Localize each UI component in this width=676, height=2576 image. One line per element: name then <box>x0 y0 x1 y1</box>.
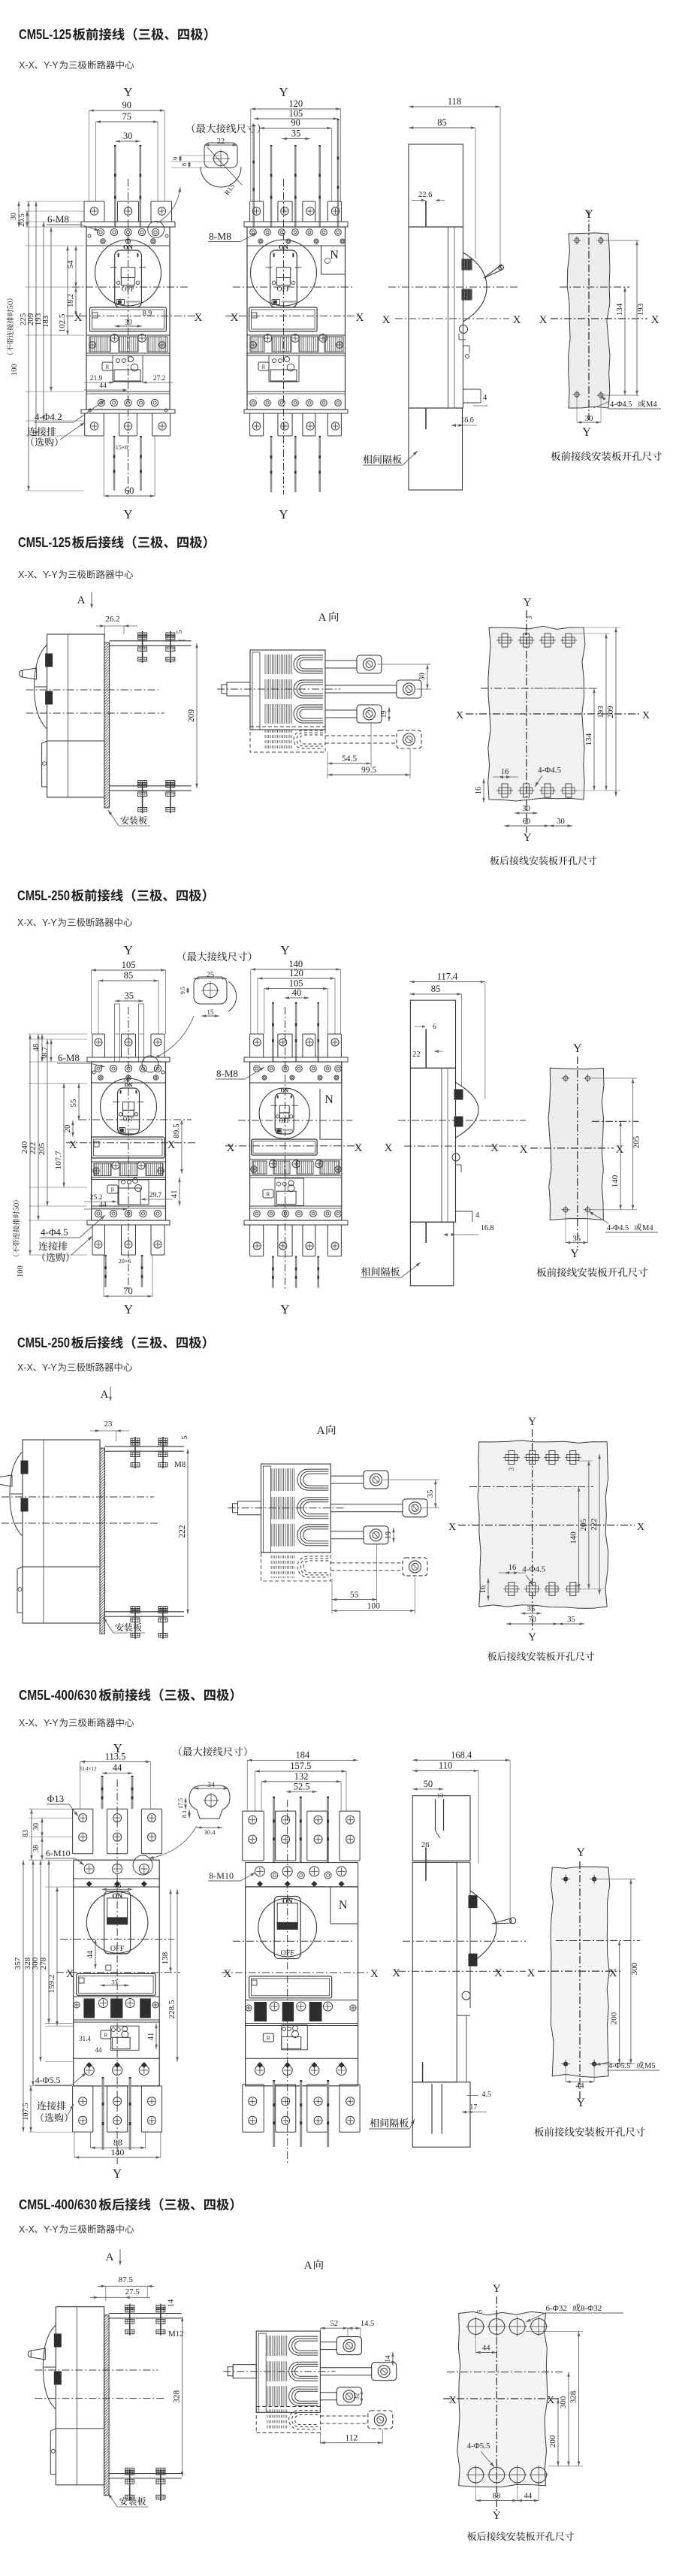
svg-text:14.5: 14.5 <box>361 2320 374 2328</box>
svg-text:25.2: 25.2 <box>90 1194 103 1202</box>
svg-text:19: 19 <box>385 1531 393 1539</box>
svg-text:44: 44 <box>99 382 107 390</box>
svg-text:Y: Y <box>279 507 288 522</box>
svg-text:25: 25 <box>207 971 214 979</box>
svg-text:6: 6 <box>433 1023 436 1031</box>
svg-text:193: 193 <box>636 303 645 316</box>
svg-text:54: 54 <box>66 260 75 269</box>
svg-text:Y: Y <box>573 1042 582 1055</box>
svg-text:20: 20 <box>63 1124 72 1133</box>
svg-text:Y-Y: Y-Y <box>43 570 58 580</box>
svg-text:205: 205 <box>632 1135 641 1148</box>
svg-text:205: 205 <box>579 1518 588 1531</box>
svg-text:328: 328 <box>569 2390 578 2403</box>
svg-text:20×6: 20×6 <box>119 1258 131 1265</box>
svg-text:200: 200 <box>610 2012 619 2024</box>
svg-text:120: 120 <box>288 98 303 109</box>
svg-text:X: X <box>355 1142 363 1154</box>
svg-text:CM5L-125: CM5L-125 <box>18 534 71 550</box>
svg-text:140: 140 <box>611 1175 620 1187</box>
svg-text:X: X <box>456 710 463 721</box>
svg-text:X-X: X-X <box>19 2224 35 2235</box>
svg-text:X: X <box>609 1967 617 1979</box>
svg-text:85: 85 <box>124 970 134 981</box>
svg-text:44: 44 <box>113 1763 122 1773</box>
svg-text:278: 278 <box>39 1957 48 1970</box>
svg-text:X: X <box>231 312 239 324</box>
svg-text:4.5: 4.5 <box>482 2091 492 2099</box>
svg-text:14: 14 <box>385 2355 392 2363</box>
svg-text:5: 5 <box>176 630 184 633</box>
svg-text:30: 30 <box>418 673 427 681</box>
svg-text:55: 55 <box>350 1591 359 1600</box>
svg-text:X: X <box>449 2395 457 2406</box>
svg-text:X-X: X-X <box>17 918 34 928</box>
svg-text:ON: ON <box>282 1897 293 1905</box>
svg-text:30: 30 <box>123 131 133 141</box>
svg-text:X: X <box>513 314 521 326</box>
svg-text:4-Φ5.5: 4-Φ5.5 <box>35 2075 61 2085</box>
svg-text:4: 4 <box>475 1211 480 1220</box>
svg-text:38.7: 38.7 <box>41 1047 50 1060</box>
svg-text:105: 105 <box>122 960 136 970</box>
svg-text:70: 70 <box>123 1286 133 1296</box>
svg-text:85: 85 <box>431 984 441 994</box>
svg-text:209: 209 <box>187 709 196 723</box>
svg-text:16: 16 <box>509 1564 517 1572</box>
svg-text:222: 222 <box>29 1142 38 1155</box>
svg-text:44: 44 <box>576 2081 585 2090</box>
svg-text:52.5: 52.5 <box>294 1781 310 1791</box>
svg-text:140: 140 <box>569 1531 578 1544</box>
svg-text:16.8: 16.8 <box>481 1224 494 1232</box>
svg-text:29.7: 29.7 <box>149 1192 162 1199</box>
svg-text:85: 85 <box>437 117 447 128</box>
svg-text:Y: Y <box>113 2166 122 2181</box>
svg-text:30: 30 <box>522 805 530 813</box>
svg-text:18.2: 18.2 <box>67 294 75 307</box>
svg-text:117.4: 117.4 <box>437 972 458 982</box>
svg-text:44: 44 <box>524 2493 533 2501</box>
svg-text:R: R <box>104 2033 108 2039</box>
svg-text:140: 140 <box>110 2147 124 2157</box>
svg-text:134: 134 <box>615 303 624 316</box>
svg-text:CM5L-400/630: CM5L-400/630 <box>19 1687 97 1703</box>
svg-text:41: 41 <box>147 2033 155 2041</box>
svg-text:X: X <box>448 1522 456 1533</box>
svg-text:22: 22 <box>217 138 225 146</box>
svg-text:A: A <box>101 1389 109 1401</box>
svg-text:102.5: 102.5 <box>58 313 67 332</box>
svg-text:8.1: 8.1 <box>181 1810 188 1818</box>
svg-text:30: 30 <box>10 213 18 220</box>
svg-text:6-M8: 6-M8 <box>47 213 69 225</box>
svg-text:40: 40 <box>292 987 302 998</box>
svg-text:Y-Y: Y-Y <box>44 60 59 71</box>
svg-text:6-M10: 6-M10 <box>46 1848 71 1858</box>
svg-text:200: 200 <box>548 2435 557 2448</box>
svg-text:4-Φ4.5: 4-Φ4.5 <box>610 401 632 409</box>
svg-text:17.5: 17.5 <box>177 1798 184 1809</box>
svg-text:X: X <box>356 312 364 324</box>
svg-text:26.2: 26.2 <box>105 615 119 624</box>
svg-text:100: 100 <box>11 364 19 376</box>
svg-text:M4: M4 <box>646 401 657 409</box>
svg-text:32: 32 <box>354 2393 361 2400</box>
svg-text:X: X <box>382 314 391 326</box>
svg-text:8-M8: 8-M8 <box>209 231 231 242</box>
svg-text:118: 118 <box>448 96 461 107</box>
svg-text:ON: ON <box>123 243 134 251</box>
svg-text:60: 60 <box>125 485 134 496</box>
svg-text:Y: Y <box>582 426 591 439</box>
svg-text:4-Φ4.5: 4-Φ4.5 <box>41 1226 68 1238</box>
svg-text:Φ13: Φ13 <box>47 1793 65 1804</box>
svg-text:X: X <box>539 314 548 326</box>
svg-text:19: 19 <box>380 711 388 718</box>
svg-text:X: X <box>167 1139 176 1151</box>
svg-text:N: N <box>330 249 339 262</box>
svg-text:184: 184 <box>296 1749 311 1760</box>
svg-text:4-Φ4.5: 4-Φ4.5 <box>538 766 561 775</box>
svg-text:N: N <box>324 1093 333 1106</box>
svg-text:X: X <box>66 1968 74 1980</box>
svg-text:38: 38 <box>32 1845 41 1852</box>
svg-text:X: X <box>547 2395 554 2406</box>
svg-text:16: 16 <box>479 1586 487 1594</box>
svg-text:35: 35 <box>572 1235 581 1244</box>
svg-text:3: 3 <box>508 1467 515 1471</box>
svg-text:44: 44 <box>86 1950 95 1958</box>
svg-text:138: 138 <box>161 1952 170 1964</box>
svg-text:Y: Y <box>493 2283 501 2295</box>
svg-text:Y: Y <box>123 85 132 99</box>
svg-text:Y: Y <box>528 1631 536 1643</box>
svg-text:5: 5 <box>181 1435 189 1439</box>
svg-text:54.5: 54.5 <box>342 754 357 763</box>
svg-text:157.5: 157.5 <box>290 1761 311 1771</box>
svg-text:33: 33 <box>112 1979 118 1986</box>
svg-text:13: 13 <box>437 1791 444 1799</box>
svg-text:X: X <box>490 1142 499 1154</box>
svg-text:183: 183 <box>41 315 50 328</box>
svg-text:70: 70 <box>528 1616 536 1624</box>
svg-text:20.5: 20.5 <box>18 213 26 227</box>
svg-text:9.5: 9.5 <box>179 987 186 995</box>
svg-text:60: 60 <box>523 818 531 826</box>
svg-text:46: 46 <box>113 1882 122 1890</box>
svg-text:A: A <box>317 1425 325 1437</box>
svg-text:A: A <box>318 612 327 624</box>
svg-text:205: 205 <box>38 1142 47 1155</box>
svg-text:35: 35 <box>427 1490 435 1498</box>
svg-text:Y-Y: Y-Y <box>44 1718 59 1728</box>
svg-text:134: 134 <box>584 733 593 745</box>
svg-text:34: 34 <box>207 1782 215 1789</box>
svg-text:8-Φ32: 8-Φ32 <box>581 2304 602 2313</box>
svg-text:89.5: 89.5 <box>172 1123 181 1138</box>
svg-text:X-X: X-X <box>19 1718 35 1728</box>
svg-text:R: R <box>267 2036 270 2042</box>
svg-text:87.5: 87.5 <box>119 2275 134 2284</box>
svg-text:CM5L-400/630: CM5L-400/630 <box>19 2197 97 2212</box>
svg-text:30: 30 <box>32 1823 41 1831</box>
svg-text:X: X <box>392 1967 400 1979</box>
svg-text:A: A <box>77 594 86 606</box>
svg-text:ON: ON <box>279 243 289 251</box>
svg-text:Y: Y <box>124 1302 133 1317</box>
svg-text:N: N <box>339 1899 348 1912</box>
svg-text:15: 15 <box>207 1008 215 1016</box>
svg-text:21.9: 21.9 <box>90 375 103 382</box>
svg-text:X: X <box>651 314 659 326</box>
svg-text:14: 14 <box>167 2299 175 2307</box>
svg-text:M5: M5 <box>644 2062 656 2070</box>
svg-text:4-Φ4.5: 4-Φ4.5 <box>607 1224 629 1232</box>
svg-text:R: R <box>267 1192 270 1198</box>
svg-text:35: 35 <box>291 128 301 139</box>
svg-text:X: X <box>223 1968 231 1980</box>
svg-text:88: 88 <box>493 2493 501 2501</box>
svg-text:CM5L-250: CM5L-250 <box>17 887 70 903</box>
svg-text:Y: Y <box>528 1416 536 1428</box>
svg-text:8-M8: 8-M8 <box>216 1068 238 1079</box>
svg-text:M8: M8 <box>174 1460 186 1469</box>
svg-text:44: 44 <box>95 2046 103 2054</box>
svg-text:107.7: 107.7 <box>54 1150 63 1169</box>
svg-text:222: 222 <box>178 1525 187 1538</box>
svg-text:4-Φ5.5: 4-Φ5.5 <box>608 2062 631 2070</box>
svg-text:35: 35 <box>567 1616 575 1624</box>
svg-text:357: 357 <box>14 1957 23 1970</box>
svg-text:X: X <box>195 312 203 324</box>
svg-text:Y: Y <box>524 597 532 609</box>
svg-text:112: 112 <box>345 2434 358 2443</box>
svg-text:X: X <box>494 1967 502 1979</box>
svg-text:44: 44 <box>99 1202 107 1209</box>
svg-text:168.4: 168.4 <box>451 1749 472 1760</box>
svg-text:100: 100 <box>367 1601 381 1610</box>
svg-text:300: 300 <box>559 2396 568 2408</box>
svg-text:A: A <box>304 2260 312 2272</box>
svg-text:193: 193 <box>596 706 605 718</box>
svg-text:OFF: OFF <box>123 1116 134 1123</box>
svg-text:Y-Y: Y-Y <box>44 2224 59 2235</box>
svg-text:30: 30 <box>125 319 132 327</box>
svg-text:X: X <box>69 1139 77 1151</box>
svg-text:X-X: X-X <box>19 60 35 71</box>
svg-text:4-Φ4.2: 4-Φ4.2 <box>35 411 62 422</box>
svg-text:X: X <box>527 1967 536 1979</box>
svg-text:17: 17 <box>469 2103 477 2112</box>
svg-text:3: 3 <box>475 2309 483 2313</box>
svg-text:120: 120 <box>289 968 303 978</box>
svg-text:4-Φ4.5: 4-Φ4.5 <box>522 1565 545 1574</box>
svg-text:ON: ON <box>125 1083 133 1089</box>
svg-text:23: 23 <box>104 1420 113 1429</box>
svg-text:52: 52 <box>330 2320 338 2328</box>
svg-text:33.4×12: 33.4×12 <box>79 1766 97 1772</box>
svg-text:328: 328 <box>173 2390 182 2403</box>
svg-text:16: 16 <box>475 787 483 795</box>
svg-text:X: X <box>227 1142 235 1154</box>
svg-text:R: R <box>262 364 266 370</box>
svg-text:CM5L-250: CM5L-250 <box>17 1335 70 1350</box>
svg-text:48: 48 <box>32 1044 41 1051</box>
svg-text:Y-Y: Y-Y <box>42 918 57 928</box>
svg-text:ON: ON <box>280 1088 288 1094</box>
svg-text:Y: Y <box>123 507 132 522</box>
svg-text:88: 88 <box>113 2137 122 2148</box>
svg-text:99.5: 99.5 <box>361 766 376 775</box>
svg-text:X: X <box>520 1144 528 1156</box>
svg-text:ON: ON <box>112 1892 122 1900</box>
svg-text:44: 44 <box>482 2345 490 2353</box>
svg-text:209: 209 <box>606 706 615 718</box>
svg-text:55: 55 <box>69 1099 78 1108</box>
svg-text:R: R <box>106 364 110 370</box>
svg-text:OFF: OFF <box>110 1945 125 1953</box>
svg-text:90: 90 <box>291 118 300 128</box>
svg-text:X: X <box>642 710 650 721</box>
svg-text:Y-Y: Y-Y <box>42 1362 57 1373</box>
svg-text:9: 9 <box>171 157 179 160</box>
svg-text:22.6: 22.6 <box>418 191 432 199</box>
svg-text:X: X <box>637 1522 644 1533</box>
svg-text:222: 222 <box>590 1518 599 1531</box>
svg-text:50: 50 <box>424 1779 433 1789</box>
svg-text:30: 30 <box>585 414 594 423</box>
svg-text:8-M10: 8-M10 <box>209 1870 234 1881</box>
svg-text:159.2: 159.2 <box>47 1975 56 1994</box>
svg-text:Y: Y <box>577 2097 586 2109</box>
svg-text:4-Φ5.5: 4-Φ5.5 <box>467 2441 490 2451</box>
svg-text:A: A <box>106 2251 114 2263</box>
svg-text:35: 35 <box>527 1605 536 1613</box>
svg-text:27.2: 27.2 <box>153 375 166 382</box>
svg-text:X: X <box>616 1144 624 1156</box>
svg-text:30: 30 <box>557 818 565 826</box>
svg-text:Y: Y <box>280 1302 289 1317</box>
svg-text:6-Φ32: 6-Φ32 <box>546 2304 567 2313</box>
svg-text:83: 83 <box>22 1830 30 1837</box>
svg-text:4: 4 <box>483 394 487 402</box>
svg-text:X-X: X-X <box>18 570 35 580</box>
svg-text:Y: Y <box>524 832 532 844</box>
svg-text:35: 35 <box>125 990 134 1001</box>
svg-text:Y: Y <box>280 943 289 957</box>
svg-text:CM5L-125: CM5L-125 <box>19 26 71 42</box>
svg-text:300: 300 <box>630 1962 639 1975</box>
svg-text:132: 132 <box>294 1771 309 1782</box>
svg-text:75: 75 <box>122 111 132 122</box>
svg-text:R: R <box>111 1187 115 1193</box>
svg-text:X: X <box>385 1142 393 1154</box>
svg-text:Y: Y <box>124 943 133 957</box>
svg-text:100: 100 <box>17 1265 25 1277</box>
svg-text:6-M8: 6-M8 <box>58 1052 80 1063</box>
svg-text:Y: Y <box>279 85 288 99</box>
svg-text:OFF: OFF <box>281 1949 295 1958</box>
svg-text:90: 90 <box>122 100 132 110</box>
svg-text:Y: Y <box>577 1846 586 1859</box>
svg-text:22: 22 <box>412 1051 421 1059</box>
svg-text:41: 41 <box>170 1190 179 1199</box>
svg-text:110: 110 <box>439 1761 452 1771</box>
svg-text:X-X: X-X <box>17 1362 34 1373</box>
svg-text:31.4: 31.4 <box>79 2035 91 2042</box>
svg-text:16: 16 <box>501 768 509 776</box>
svg-text:Y: Y <box>493 2510 501 2522</box>
svg-text:M4: M4 <box>642 1224 653 1232</box>
svg-text:27.5: 27.5 <box>125 2287 140 2296</box>
svg-text:M12: M12 <box>168 2330 184 2339</box>
svg-text:X: X <box>370 1968 379 1980</box>
svg-text:228.5: 228.5 <box>167 2000 177 2018</box>
svg-text:8: 8 <box>180 163 188 166</box>
svg-text:Y: Y <box>570 1247 579 1260</box>
svg-text:113.5: 113.5 <box>105 1751 126 1761</box>
svg-text:30.4: 30.4 <box>204 1828 216 1836</box>
svg-text:15×6: 15×6 <box>116 444 128 451</box>
svg-text:8.9: 8.9 <box>143 310 152 318</box>
